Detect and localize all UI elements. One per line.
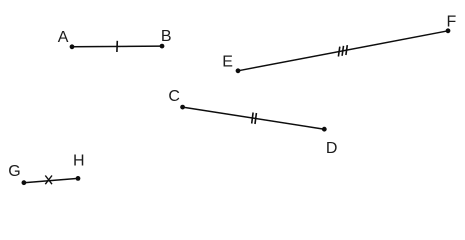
svg-text:C: C (168, 88, 180, 105)
svg-text:E: E (222, 53, 233, 70)
svg-text:F: F (447, 13, 457, 30)
svg-text:H: H (73, 153, 85, 170)
svg-text:A: A (58, 29, 69, 46)
svg-text:G: G (8, 163, 20, 180)
svg-text:B: B (161, 28, 172, 45)
svg-text:D: D (326, 140, 338, 157)
